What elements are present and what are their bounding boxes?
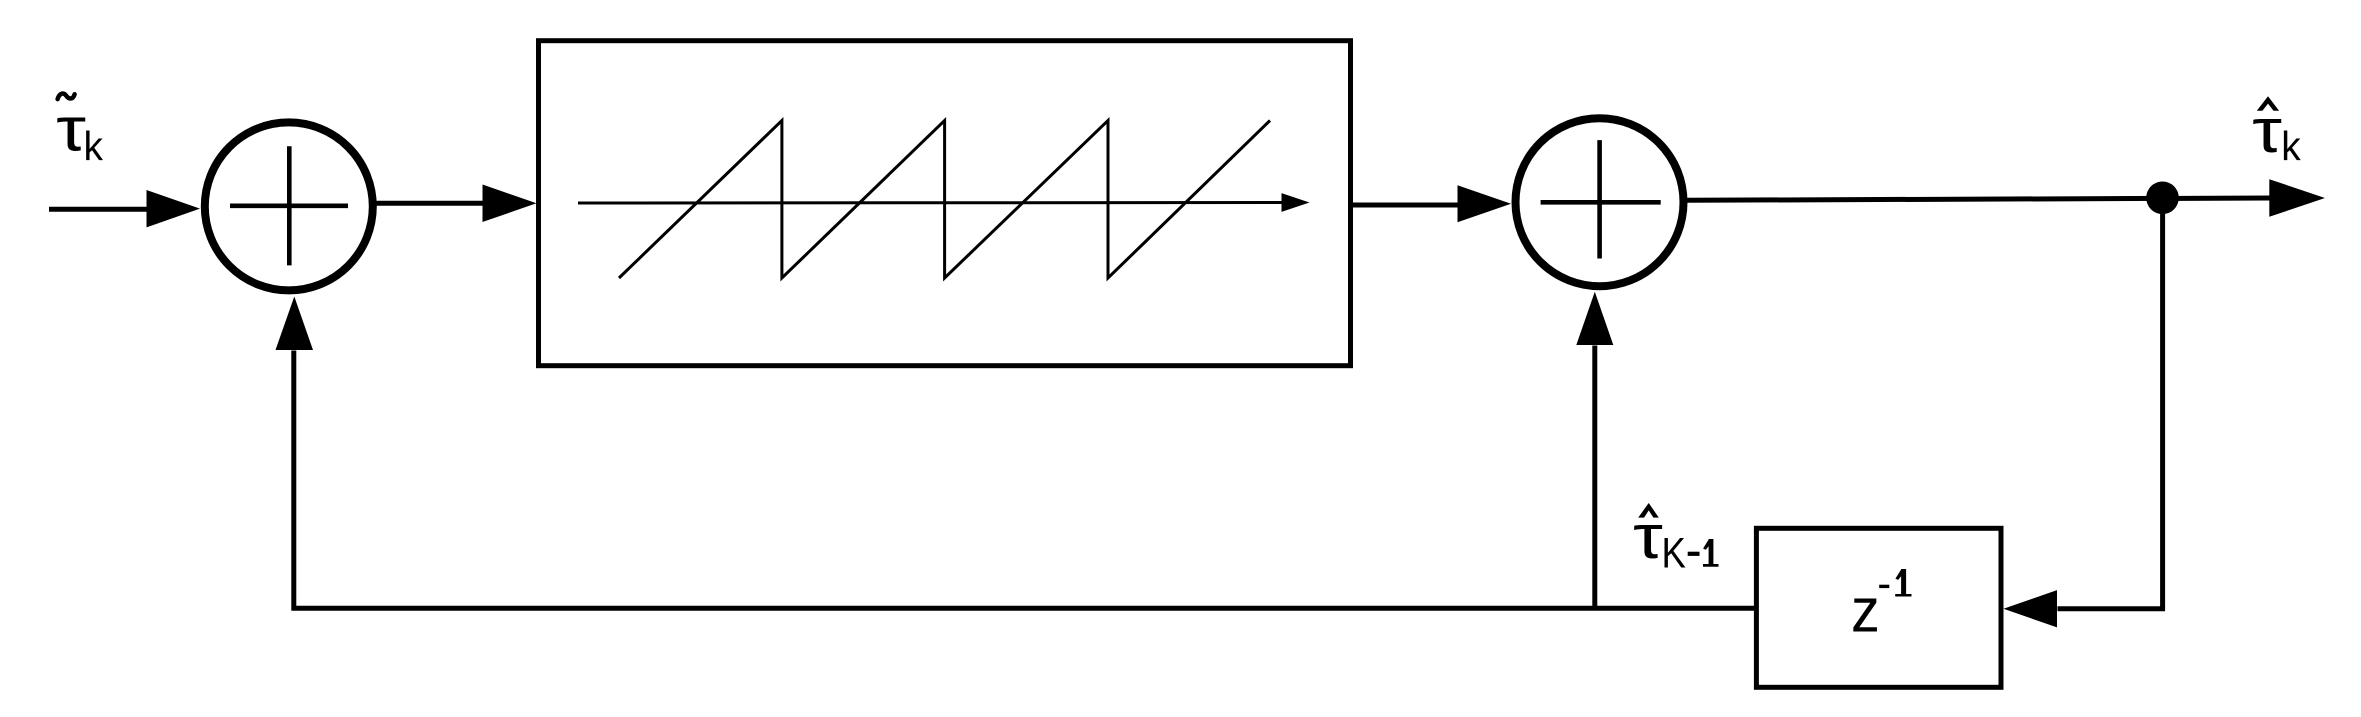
node input label tau-tilde-k — [56, 94, 104, 170]
svg-text:z: z — [1851, 575, 1880, 644]
arrowhead into summer S1 — [147, 190, 201, 227]
plus sign in S1 — [230, 204, 348, 209]
quantizer box — [539, 41, 1351, 366]
wire input — [49, 207, 148, 212]
svg-text:k: k — [84, 124, 104, 169]
label z^-1 — [1851, 569, 1912, 645]
wire branch up to S2 — [1592, 346, 1597, 609]
arrowhead up into S1 — [276, 297, 314, 351]
plus sign in S2 — [1541, 200, 1661, 205]
sawtooth waveform — [619, 121, 1270, 279]
svg-text:k: k — [2281, 124, 2301, 169]
wire S1 to quantizer box — [377, 201, 484, 206]
wire quantizer box to summer S2 — [1353, 203, 1458, 208]
arrowhead into quantizer box — [483, 185, 537, 223]
svg-text:K: K — [1662, 530, 1687, 577]
summing junction S1 — [205, 122, 373, 290]
quantizer axis arrowhead — [1282, 193, 1310, 212]
output arrowhead — [2269, 179, 2325, 217]
arrowhead into z-box (pointing left) — [2004, 590, 2058, 627]
wire S2 to output — [1687, 198, 2270, 200]
quantizer axis line — [578, 201, 1283, 205]
svg-text:τ: τ — [2252, 96, 2282, 165]
svg-text:τ: τ — [56, 95, 86, 164]
wire feedback: dot down and left into z-box — [2058, 198, 2163, 609]
node output label tau-hat-k — [2252, 96, 2301, 169]
junction dot — [2146, 182, 2179, 215]
svg-text:τ: τ — [1633, 502, 1663, 571]
wire feedback bottom: z-box out left, along bottom, up to S1 — [294, 351, 1757, 609]
node label tau-hat-K-1 — [1633, 502, 1718, 577]
delay block z^-1 — [1756, 528, 2001, 687]
summing junction S2 — [1516, 118, 1684, 286]
arrowhead into summer S2 — [1458, 185, 1512, 222]
arrowhead up into S2 — [1576, 292, 1613, 345]
